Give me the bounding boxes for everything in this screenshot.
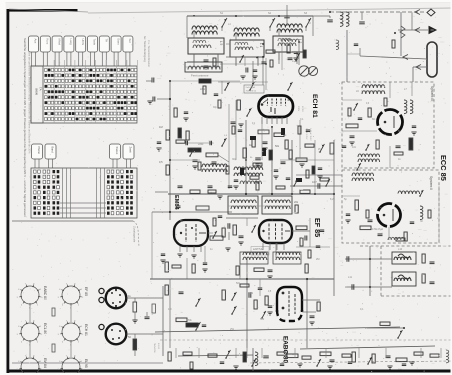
- svg-text:0,1: 0,1: [360, 308, 364, 311]
- svg-text:L10: L10: [398, 248, 403, 251]
- svg-text:8,2k: 8,2k: [330, 198, 335, 201]
- svg-text:System III: System III: [430, 86, 434, 101]
- svg-text:0,5: 0,5: [159, 160, 163, 164]
- svg-text:30p: 30p: [232, 158, 237, 161]
- svg-text:25p: 25p: [230, 328, 235, 331]
- svg-text:10,7: 10,7: [312, 181, 317, 184]
- svg-text:L11: L11: [348, 276, 353, 279]
- svg-text:2x0,07μA: 2x0,07μA: [246, 86, 256, 89]
- svg-text:TA: TA: [39, 87, 43, 91]
- svg-text:Zweit: Zweit: [129, 147, 133, 153]
- svg-text:Taste: Taste: [93, 39, 97, 46]
- svg-text:EABC 80: EABC 80: [43, 286, 47, 300]
- svg-text:L 5: L 5: [219, 41, 223, 46]
- svg-text:LN1: LN1: [238, 46, 244, 50]
- svg-text:Phono: Phono: [37, 147, 41, 155]
- svg-text:Mittel: Mittel: [57, 39, 61, 46]
- svg-text:bei Tastenbetatigung: bei Tastenbetatigung: [143, 36, 147, 62]
- svg-text:TA 54 211: TA 54 211: [153, 343, 156, 353]
- svg-text:UKW: UKW: [81, 39, 85, 46]
- svg-text:ECC 85: ECC 85: [439, 155, 448, 181]
- svg-text:ECH 81: ECH 81: [311, 94, 318, 118]
- svg-text:Aus: Aus: [34, 39, 38, 44]
- svg-text:Band: Band: [51, 147, 55, 154]
- svg-text:1M: 1M: [168, 308, 171, 311]
- svg-text:ECH 81: ECH 81: [84, 324, 88, 336]
- svg-text:Kurz: Kurz: [46, 39, 50, 45]
- svg-text:EF 85: EF 85: [313, 218, 322, 237]
- svg-text:EF 85: EF 85: [84, 287, 88, 296]
- svg-text:220k: 220k: [198, 143, 204, 146]
- svg-text:Bass: Bass: [116, 39, 120, 46]
- svg-text:ECL 80: ECL 80: [43, 323, 47, 334]
- svg-text:System II: System II: [429, 176, 433, 190]
- svg-text:10n: 10n: [352, 146, 357, 149]
- svg-text:EL 95: EL 95: [84, 359, 88, 368]
- svg-text:C u. Tastenkombination: C u. Tastenkombination: [147, 40, 151, 68]
- svg-text:UKW: UKW: [35, 88, 39, 95]
- svg-text:Ferrit antenne: Ferrit antenne: [191, 74, 209, 78]
- svg-text:Sol: Sol: [128, 39, 132, 43]
- svg-text:0,1: 0,1: [300, 118, 304, 121]
- svg-text:B 124: B 124: [157, 343, 159, 349]
- svg-text:230V: 230V: [297, 106, 299, 112]
- svg-text:12,5V: 12,5V: [301, 106, 303, 112]
- svg-text:Lang: Lang: [69, 39, 73, 46]
- svg-text:Samtliche angegebenen Spannung: Samtliche angegebenen Spannungen sind mi…: [23, 38, 27, 217]
- svg-text:705K23 5k: 705K23 5k: [246, 91, 257, 93]
- svg-text:Stereo: Stereo: [115, 147, 119, 155]
- svg-text:1M: 1M: [250, 293, 253, 295]
- svg-text:Zusatzgerate: Zusatzgerate: [133, 226, 137, 243]
- svg-text:500: 500: [260, 318, 265, 321]
- svg-text:172L17μA: 172L17μA: [372, 228, 383, 231]
- svg-text:2M: 2M: [316, 258, 319, 261]
- svg-text:1M: 1M: [159, 125, 163, 129]
- svg-text:TA: TA: [105, 39, 109, 43]
